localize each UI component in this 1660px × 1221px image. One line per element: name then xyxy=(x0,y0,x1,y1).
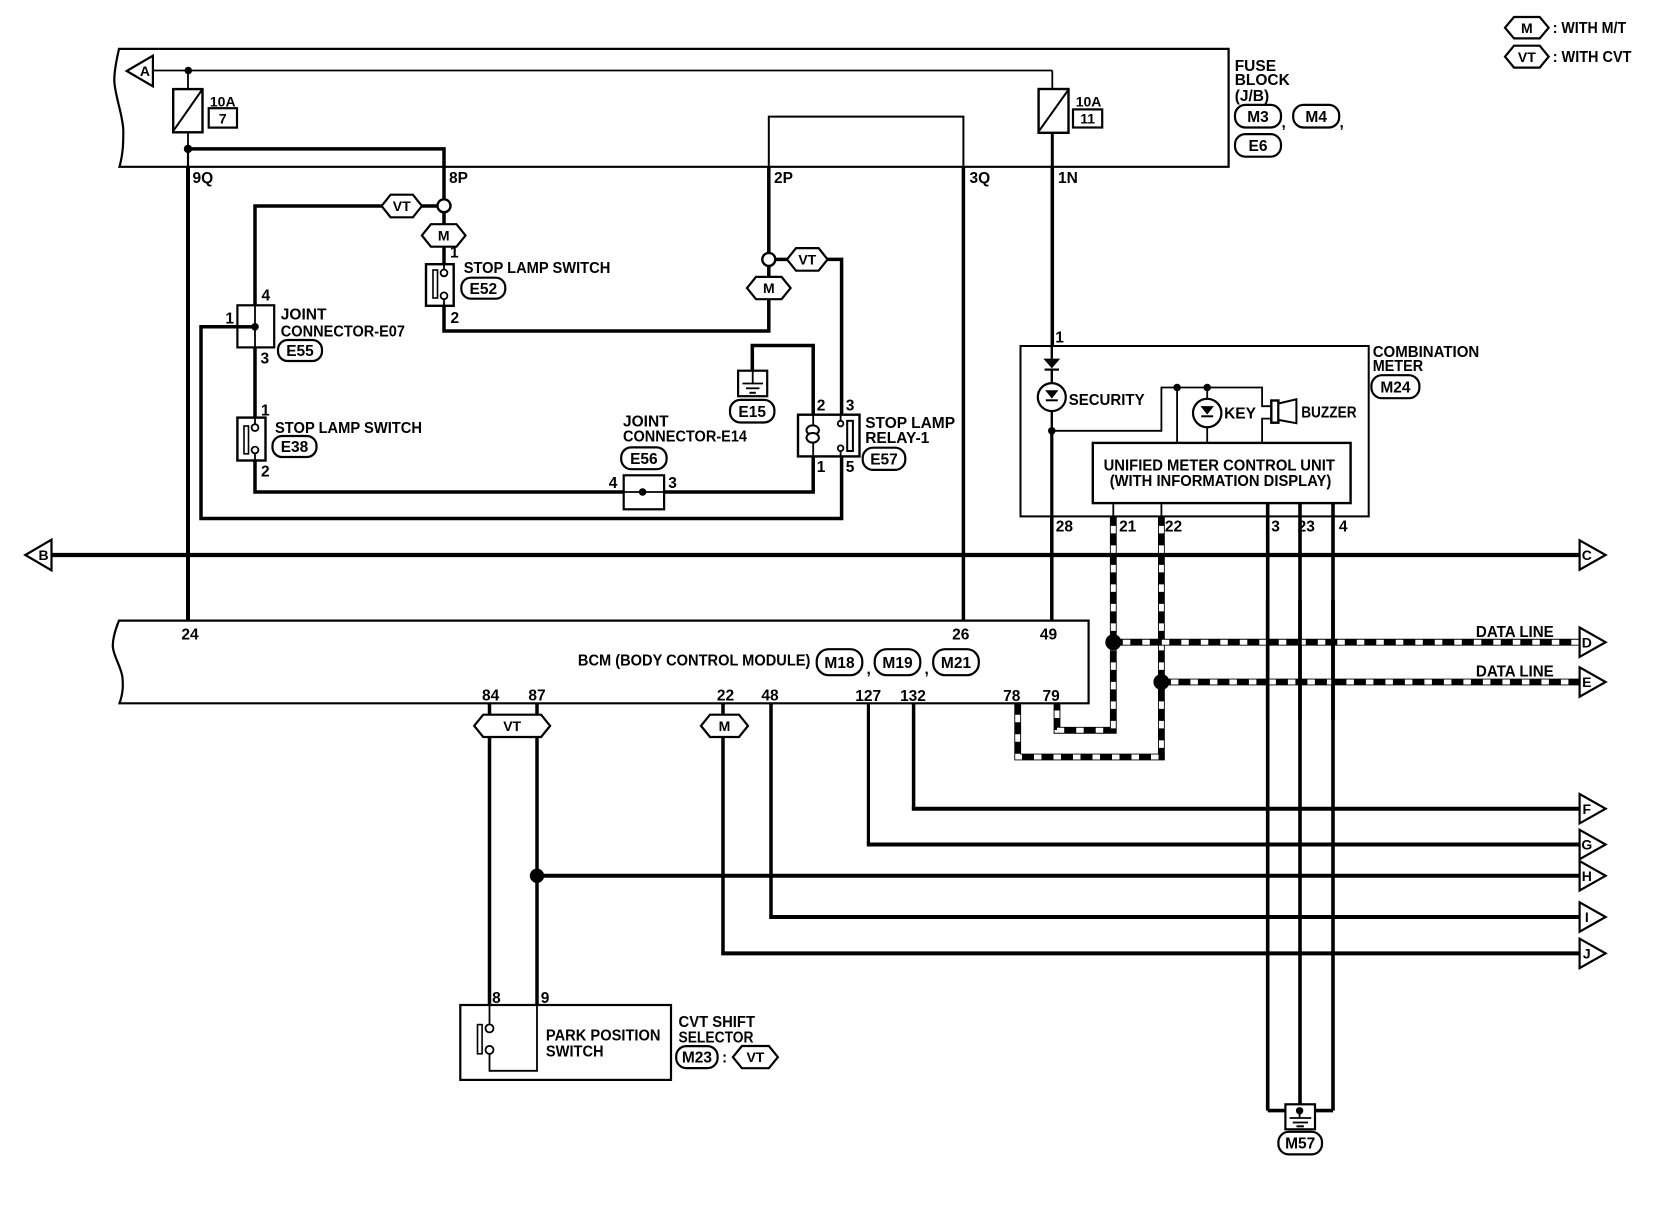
svg-text:F: F xyxy=(1583,801,1592,817)
svg-text:: WITH CVT: : WITH CVT xyxy=(1553,49,1632,66)
svg-text:METER: METER xyxy=(1373,358,1423,375)
svg-text:J: J xyxy=(1583,946,1591,962)
svg-text:132: 132 xyxy=(900,688,926,705)
svg-text:M: M xyxy=(1521,20,1533,36)
svg-text:E6: E6 xyxy=(1249,138,1268,155)
svg-text::: : xyxy=(722,1049,727,1066)
svg-text:CONNECTOR-E07: CONNECTOR-E07 xyxy=(281,324,405,341)
svg-text:49: 49 xyxy=(1040,626,1058,643)
svg-text:UNIFIED METER CONTROL UNIT: UNIFIED METER CONTROL UNIT xyxy=(1104,457,1336,474)
svg-text:8P: 8P xyxy=(449,170,468,187)
svg-text:79: 79 xyxy=(1042,688,1060,705)
svg-text:3: 3 xyxy=(846,398,855,415)
svg-text:VT: VT xyxy=(503,718,521,734)
svg-text:23: 23 xyxy=(1298,519,1316,536)
svg-text:E55: E55 xyxy=(286,343,314,360)
svg-text:(WITH INFORMATION DISPLAY): (WITH INFORMATION DISPLAY) xyxy=(1110,473,1332,490)
svg-text:26: 26 xyxy=(952,626,970,643)
svg-text:,: , xyxy=(867,661,871,678)
svg-text:B: B xyxy=(38,547,48,563)
svg-text:I: I xyxy=(1585,909,1589,925)
svg-text:M: M xyxy=(719,718,731,734)
svg-text:84: 84 xyxy=(482,688,500,705)
svg-text:: WITH M/T: : WITH M/T xyxy=(1553,20,1627,37)
svg-text:11: 11 xyxy=(1080,110,1095,126)
svg-text:10A: 10A xyxy=(1076,93,1102,109)
svg-text:4: 4 xyxy=(1339,519,1348,536)
svg-text:H: H xyxy=(1582,868,1592,884)
svg-text:DATA LINE: DATA LINE xyxy=(1476,624,1554,641)
svg-text:SELECTOR: SELECTOR xyxy=(679,1029,754,1046)
svg-text:M57: M57 xyxy=(1285,1136,1315,1153)
svg-text:9: 9 xyxy=(541,990,550,1007)
svg-text:RELAY-1: RELAY-1 xyxy=(865,430,929,447)
svg-text:87: 87 xyxy=(528,688,545,705)
svg-text:E52: E52 xyxy=(470,281,498,298)
svg-text:M: M xyxy=(763,280,775,296)
svg-text:VT: VT xyxy=(746,1049,764,1065)
svg-text:JOINT: JOINT xyxy=(281,307,327,324)
svg-text:M24: M24 xyxy=(1380,379,1411,396)
svg-text:3Q: 3Q xyxy=(970,170,991,187)
svg-text:C: C xyxy=(1582,547,1592,563)
svg-text:24: 24 xyxy=(181,626,199,643)
svg-text:2: 2 xyxy=(451,310,460,327)
svg-text:VT: VT xyxy=(1518,49,1536,65)
svg-text:SWITCH: SWITCH xyxy=(546,1043,604,1060)
svg-text:VT: VT xyxy=(798,252,816,268)
svg-text:4: 4 xyxy=(262,288,271,305)
svg-text:3: 3 xyxy=(261,350,270,367)
svg-text:E56: E56 xyxy=(630,451,658,468)
svg-text:1: 1 xyxy=(817,459,826,476)
svg-text:M18: M18 xyxy=(824,655,855,672)
svg-text:4: 4 xyxy=(609,475,618,492)
svg-text:1: 1 xyxy=(450,245,459,262)
svg-text:3: 3 xyxy=(668,475,677,492)
svg-text:VT: VT xyxy=(393,198,411,214)
svg-text:A: A xyxy=(140,63,150,79)
svg-text:1N: 1N xyxy=(1058,170,1078,187)
svg-text:5: 5 xyxy=(846,459,855,476)
svg-text:M: M xyxy=(438,228,450,244)
svg-text:E: E xyxy=(1582,674,1591,690)
svg-text:3: 3 xyxy=(1271,519,1280,536)
svg-text:78: 78 xyxy=(1003,688,1021,705)
svg-text:M4: M4 xyxy=(1305,109,1327,126)
svg-text:1: 1 xyxy=(1055,330,1064,347)
svg-text:28: 28 xyxy=(1056,519,1074,536)
svg-text:CONNECTOR-E14: CONNECTOR-E14 xyxy=(623,429,747,446)
svg-text:STOP LAMP SWITCH: STOP LAMP SWITCH xyxy=(464,260,611,277)
svg-text:BUZZER: BUZZER xyxy=(1301,405,1356,422)
svg-text:,: , xyxy=(1340,115,1344,132)
svg-text:,: , xyxy=(925,661,929,678)
svg-text:KEY: KEY xyxy=(1224,406,1257,423)
svg-text:E15: E15 xyxy=(738,404,766,421)
svg-text:2: 2 xyxy=(261,463,270,480)
svg-text:1: 1 xyxy=(225,311,234,328)
svg-text:M23: M23 xyxy=(682,1050,713,1067)
svg-text:,: , xyxy=(1282,115,1286,132)
svg-text:22: 22 xyxy=(717,688,734,705)
svg-text:BLOCK: BLOCK xyxy=(1235,72,1291,89)
svg-text:2: 2 xyxy=(817,398,826,415)
svg-text:D: D xyxy=(1582,634,1592,650)
svg-text:STOP LAMP SWITCH: STOP LAMP SWITCH xyxy=(275,420,422,437)
svg-text:M21: M21 xyxy=(941,655,972,672)
svg-text:9Q: 9Q xyxy=(193,170,214,187)
svg-text:1: 1 xyxy=(261,402,270,419)
svg-text:8: 8 xyxy=(492,990,501,1007)
svg-text:SECURITY: SECURITY xyxy=(1069,392,1146,409)
svg-text:2P: 2P xyxy=(774,170,793,187)
svg-text:DATA LINE: DATA LINE xyxy=(1476,663,1554,680)
svg-text:PARK POSITION: PARK POSITION xyxy=(546,1028,661,1045)
svg-text:127: 127 xyxy=(855,688,881,705)
svg-text:M3: M3 xyxy=(1247,109,1269,126)
svg-text:G: G xyxy=(1581,837,1592,853)
svg-text:E38: E38 xyxy=(281,439,309,456)
svg-text:(J/B): (J/B) xyxy=(1235,88,1269,105)
svg-text:48: 48 xyxy=(761,688,779,705)
svg-text:22: 22 xyxy=(1165,519,1182,536)
svg-text:M19: M19 xyxy=(882,655,913,672)
svg-text:7: 7 xyxy=(219,110,227,126)
svg-text:10A: 10A xyxy=(210,93,236,109)
svg-text:21: 21 xyxy=(1119,519,1137,536)
svg-text:BCM (BODY CONTROL MODULE): BCM (BODY CONTROL MODULE) xyxy=(578,653,811,670)
svg-text:E57: E57 xyxy=(870,451,898,468)
